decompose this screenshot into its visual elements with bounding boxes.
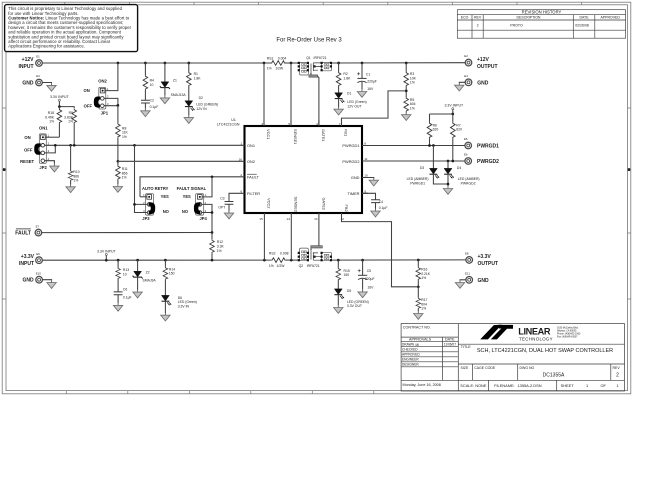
svg-text:JP1: JP1 <box>101 110 109 115</box>
svg-text:5: 5 <box>288 122 290 126</box>
svg-text:SENSE2: SENSE2 <box>294 197 299 212</box>
node junction R4 <box>144 62 147 65</box>
svg-text:INPUT: INPUT <box>19 261 34 267</box>
svg-text:PWRGD1: PWRGD1 <box>410 181 425 185</box>
capacitor C5 220uF <box>358 260 375 298</box>
svg-text:4: 4 <box>316 122 318 126</box>
svg-text:MI: MI <box>416 343 420 347</box>
svg-text:PWRGD1: PWRGD1 <box>342 143 359 148</box>
node junction Z2 <box>136 259 139 262</box>
svg-text:E2: E2 <box>464 54 468 58</box>
LED D2 green 12V IN <box>184 87 218 124</box>
svg-text:REV: REV <box>474 16 482 20</box>
node junction D4 top <box>447 160 450 163</box>
SHEET-FRAME zone ticks left <box>2 108 6 299</box>
node junction R16 <box>417 259 420 262</box>
svg-text:RS1: RS1 <box>267 56 274 60</box>
svg-text:GND: GND <box>351 175 360 180</box>
wire GATE2 to Q2 <box>318 219 320 246</box>
svg-text:11/06/07: 11/06/07 <box>444 343 456 347</box>
node 3.3V INPUT tap bottom <box>97 249 117 260</box>
svg-text:0.004: 0.004 <box>278 56 287 60</box>
svg-text:OPT: OPT <box>218 205 225 209</box>
TITLE-BLOCK left column texts <box>402 326 456 388</box>
node junction divider top <box>58 105 61 108</box>
svg-text:TECHNOLOGY: TECHNOLOGY <box>519 336 553 341</box>
TITLE-BLOCK logo Linear Technology <box>480 325 581 342</box>
svg-text:JP3: JP3 <box>142 216 150 221</box>
svg-text:1/2W: 1/2W <box>275 67 284 71</box>
svg-text:GND: GND <box>22 81 34 87</box>
svg-text:E7: E7 <box>36 224 40 228</box>
svg-text:11: 11 <box>364 157 367 161</box>
wire +12V rail E1 to RS1 <box>42 62 270 64</box>
terminal E7 FAULT <box>15 224 41 236</box>
svg-text:1%: 1% <box>73 179 78 183</box>
svg-text:3.3V INPUT: 3.3V INPUT <box>444 104 464 108</box>
svg-text:12V IN: 12V IN <box>196 107 207 111</box>
resistor R7 <box>451 114 463 161</box>
svg-text:C3: C3 <box>220 197 224 201</box>
svg-text:0.008: 0.008 <box>280 252 289 256</box>
svg-text:1/2W: 1/2W <box>277 264 286 268</box>
terminal E4 GND <box>455 74 489 91</box>
svg-text:GND: GND <box>478 278 490 284</box>
wire PWRGD2 net to E6 <box>368 160 465 162</box>
svg-text:IRF6721: IRF6721 <box>314 56 327 60</box>
node junction R6 bottom <box>428 144 431 147</box>
svg-text:OFF: OFF <box>84 103 93 108</box>
resistor R15 <box>336 260 350 289</box>
svg-text:D2: D2 <box>199 96 203 100</box>
svg-text:E4: E4 <box>464 74 468 78</box>
svg-text:CAGE CODE: CAGE CODE <box>474 366 496 370</box>
capacitor C2 <box>141 90 159 117</box>
svg-text:E1: E1 <box>36 55 40 59</box>
terminal E10 GND <box>22 271 56 288</box>
svg-text:PROTO: PROTO <box>510 24 523 28</box>
svg-text:SIZE: SIZE <box>461 366 469 370</box>
svg-text:Milpitas, CA 95035: Milpitas, CA 95035 <box>557 330 577 333</box>
resistor R12 <box>210 233 225 261</box>
wire ON1 net to pin1 <box>55 144 238 146</box>
svg-text:CHECKED: CHECKED <box>402 348 418 352</box>
svg-text:C2: C2 <box>150 98 154 102</box>
terminal E1 +12V INPUT <box>19 55 43 70</box>
wire RS1 to Q1 <box>286 62 300 64</box>
svg-text:GATE2: GATE2 <box>321 198 326 210</box>
terminal E8 +3.3V OUTPUT <box>465 252 498 268</box>
svg-text:C6: C6 <box>123 288 127 292</box>
svg-text:GATE1: GATE1 <box>321 129 326 141</box>
resistor R6 <box>427 122 438 146</box>
svg-text:1%: 1% <box>421 307 426 311</box>
TITLE-BLOCK size cage dwg rev <box>461 366 621 379</box>
node junction R10 top <box>69 144 72 147</box>
svg-text:SMAJ3A: SMAJ3A <box>143 279 157 283</box>
svg-text:+12V: +12V <box>22 57 34 63</box>
svg-text:620: 620 <box>433 128 439 132</box>
terminal E6 PWRGD2 <box>464 153 499 165</box>
wire FAULT net <box>140 177 239 197</box>
svg-text:ON: ON <box>24 135 30 140</box>
SHEET-FRAME inner border <box>6 5 628 391</box>
svg-text:E10: E10 <box>36 271 42 275</box>
node junction C5 <box>361 259 364 262</box>
svg-text:APPROVALS: APPROVALS <box>409 338 432 342</box>
svg-text:E8: E8 <box>465 252 469 256</box>
LED D1 green 12V OUT <box>334 87 367 116</box>
DISCLAIMER proprietary notice box <box>5 5 138 52</box>
svg-text:GND: GND <box>477 80 489 86</box>
jumper JP3 AUTO RETRY <box>135 145 170 221</box>
svg-text:C5: C5 <box>367 269 371 273</box>
node 3.3V INPUT tap right <box>430 104 464 122</box>
svg-text:D5: D5 <box>347 289 351 293</box>
LED D5 green 3.3V OUT <box>334 289 369 314</box>
wire Q2 to E8 <box>332 259 466 261</box>
svg-text:Z2: Z2 <box>146 271 150 275</box>
jumper JP4 FAULT SIGNAL <box>177 177 212 233</box>
svg-text:SMAJ13A: SMAJ13A <box>171 93 187 97</box>
svg-text:JP2: JP2 <box>39 165 47 170</box>
svg-text:3.3V OUT: 3.3V OUT <box>347 304 362 308</box>
svg-text:3.3V INPUT: 3.3V INPUT <box>50 95 70 99</box>
svg-text:13: 13 <box>314 217 318 221</box>
svg-text:02/26/08: 02/26/08 <box>575 24 589 28</box>
node 3.3V INPUT tap left <box>50 95 74 108</box>
svg-text:APPROVED: APPROVED <box>600 16 620 20</box>
resistor R2 <box>336 63 351 87</box>
svg-text:2: 2 <box>240 173 242 177</box>
resistor R5 <box>402 97 416 121</box>
svg-text:ENGINEER: ENGINEER <box>402 358 419 362</box>
svg-text:REV: REV <box>613 366 621 370</box>
svg-text:10: 10 <box>123 272 127 276</box>
resistor R3 <box>404 63 417 97</box>
svg-text:+3.3V: +3.3V <box>478 254 492 260</box>
svg-text:C1: C1 <box>366 72 370 76</box>
capacitor C6 <box>113 288 131 312</box>
svg-text:DATE: DATE <box>445 338 455 342</box>
node junction R15 <box>337 259 340 262</box>
svg-text:220µF: 220µF <box>367 79 377 83</box>
svg-text:DESIGNER: DESIGNER <box>402 363 419 367</box>
svg-text:FAULT: FAULT <box>15 231 31 237</box>
capacitor C3 OPT <box>218 197 234 219</box>
node junction R3-R5-FB1 <box>405 90 408 93</box>
svg-text:E11: E11 <box>465 272 470 276</box>
svg-text:1: 1 <box>617 383 619 388</box>
SHEET-FRAME zone ticks right <box>628 108 631 299</box>
node junction JP1 feed <box>117 62 120 65</box>
TITLE-BLOCK outline <box>401 324 624 391</box>
svg-text:0.1µF: 0.1µF <box>379 206 388 210</box>
node junction R7 top <box>451 113 454 116</box>
SHEET-FRAME outer border <box>2 2 631 394</box>
svg-text:Q2: Q2 <box>299 264 304 268</box>
resistor R10 <box>66 145 80 192</box>
svg-text:6: 6 <box>240 190 242 194</box>
svg-text:7: 7 <box>339 122 341 126</box>
svg-text:1%: 1% <box>269 264 274 268</box>
node junction R16-R17-FB2 <box>417 285 420 288</box>
svg-text:8: 8 <box>364 142 366 146</box>
svg-text:OF: OF <box>601 383 607 388</box>
wire +3.3V rail E9 to RS2 <box>42 259 271 261</box>
node junction R7 bottom <box>451 160 454 163</box>
node junction R12 top <box>211 231 214 234</box>
svg-text:1355A-2.DSN: 1355A-2.DSN <box>518 383 542 388</box>
svg-text:FB1: FB1 <box>344 129 349 136</box>
svg-text:+12V: +12V <box>477 57 489 63</box>
node junction D3 top <box>432 144 435 147</box>
svg-text:220µF: 220µF <box>365 277 375 281</box>
svg-text:YES: YES <box>161 194 169 199</box>
svg-text:1: 1 <box>240 142 242 146</box>
svg-text:Z1: Z1 <box>173 78 177 82</box>
node junction tap bottom <box>105 259 108 262</box>
wire RS2 to Q2 <box>286 259 299 261</box>
resistor R16 <box>416 260 431 287</box>
svg-text:15: 15 <box>259 217 263 221</box>
resistor RS1 sense <box>267 56 287 70</box>
svg-text:ON1: ON1 <box>247 143 255 148</box>
terminal E9 +3.3V INPUT <box>19 252 42 267</box>
capacitor C1 220uF <box>357 63 377 97</box>
svg-text:DC1355A: DC1355A <box>543 372 565 378</box>
svg-text:1%: 1% <box>267 67 272 71</box>
svg-text:Phone: (408)432-1900: Phone: (408)432-1900 <box>557 334 581 336</box>
svg-text:1%: 1% <box>410 106 415 110</box>
svg-text:REVISION HISTORY: REVISION HISTORY <box>522 10 562 15</box>
LED D4 amber PWRGD2 <box>443 161 479 194</box>
svg-text:C4: C4 <box>379 200 383 204</box>
transistor Q1 IRF6721 DirectFET <box>298 56 332 126</box>
resistor R11 <box>113 161 128 192</box>
node junction R14 <box>164 259 167 262</box>
svg-text:NO: NO <box>182 209 189 214</box>
svg-text:Fax: (408)434-0507: Fax: (408)434-0507 <box>557 337 578 339</box>
jumper JP1 ON2 <box>84 63 118 115</box>
svg-text:RS2: RS2 <box>269 252 276 256</box>
svg-text:3: 3 <box>261 122 263 126</box>
svg-text:16V: 16V <box>367 285 374 289</box>
svg-text:1.8K: 1.8K <box>194 76 202 80</box>
resistor R17 <box>414 287 428 320</box>
svg-text:16V: 16V <box>367 87 374 91</box>
node junction SENSE1 <box>290 62 293 65</box>
resistor R13 <box>116 260 129 292</box>
wire FB2 jog to divider <box>342 219 419 287</box>
node junction LED gnd tie <box>447 183 450 186</box>
node junction FAULT-JP4 <box>211 175 214 178</box>
svg-text:For Re-Order Use Rev 3: For Re-Order Use Rev 3 <box>276 37 342 43</box>
svg-text:LINEAR: LINEAR <box>518 327 551 337</box>
node junction JP4 pin3 <box>211 211 214 214</box>
svg-text:FAULT SIGNAL: FAULT SIGNAL <box>177 186 207 191</box>
svg-text:ON1: ON1 <box>39 126 48 131</box>
svg-text:PWRGD2: PWRGD2 <box>477 159 499 165</box>
node junction R1 <box>187 62 190 65</box>
svg-text:3.3V IN: 3.3V IN <box>178 304 190 308</box>
node junction JP1 pins2-3 <box>117 104 120 107</box>
resistor R18 <box>45 107 62 138</box>
svg-text:CONTRACT NO.: CONTRACT NO. <box>403 326 431 330</box>
node junction C1 <box>361 62 364 65</box>
svg-text:ON2: ON2 <box>98 79 107 84</box>
svg-text:PWRGD2: PWRGD2 <box>342 159 359 164</box>
svg-text:E6: E6 <box>464 153 468 157</box>
node junction JP3 pin2 <box>133 203 136 206</box>
svg-text:0.1µF: 0.1µF <box>150 105 159 109</box>
svg-text:14: 14 <box>286 217 290 221</box>
node junction ON2 net <box>117 160 120 163</box>
node junction R13 <box>117 259 120 262</box>
resistor RS2 sense <box>269 252 289 268</box>
svg-text:2: 2 <box>616 373 619 379</box>
svg-text:D3: D3 <box>420 166 424 170</box>
svg-text:E3: E3 <box>36 74 40 78</box>
wire SENSE2 to rail <box>290 219 292 260</box>
svg-text:ECO: ECO <box>461 16 469 20</box>
svg-text:1.8K: 1.8K <box>343 76 351 80</box>
svg-text:FILENAME:: FILENAME: <box>494 383 515 388</box>
wire Q1 to E2 <box>332 62 465 64</box>
node junction VCC1 <box>263 62 266 65</box>
svg-text:E5: E5 <box>464 137 468 141</box>
svg-text:SCH, LTC4221CGN, DUAL HOT SWAP: SCH, LTC4221CGN, DUAL HOT SWAP CONTROLLE… <box>477 348 613 354</box>
terminal E5 PWRGD1 <box>464 137 499 149</box>
svg-text:0.1µF: 0.1µF <box>123 296 132 300</box>
zener Z1 SMAJ13A <box>160 63 187 104</box>
capacitor C4 <box>371 200 388 217</box>
svg-text:ON2: ON2 <box>247 159 255 164</box>
svg-text:1630 McCarthy Blvd.: 1630 McCarthy Blvd. <box>557 327 579 330</box>
svg-text:D1: D1 <box>347 91 351 95</box>
svg-text:D4: D4 <box>457 166 461 170</box>
node junction JP3 branch <box>133 144 136 147</box>
svg-text:1%: 1% <box>122 135 127 139</box>
svg-text:16: 16 <box>239 158 243 162</box>
svg-text:U1: U1 <box>231 118 236 122</box>
svg-text:3.3V INPUT: 3.3V INPUT <box>97 249 117 253</box>
wire VCC1 <box>263 63 265 126</box>
terminal E11 GND <box>455 272 489 289</box>
svg-text:E9: E9 <box>36 252 40 256</box>
node junction R9 bottom <box>73 144 76 147</box>
SHEET-FRAME zone ticks bottom <box>66 391 374 394</box>
svg-text:ON: ON <box>84 88 90 93</box>
terminal E2 +12V OUTPUT <box>464 54 497 70</box>
svg-text:2: 2 <box>477 24 479 28</box>
terminal E3 GND <box>22 74 56 91</box>
svg-text:150: 150 <box>344 273 350 277</box>
svg-text:1: 1 <box>586 383 588 388</box>
svg-text:VCC2: VCC2 <box>267 198 272 208</box>
resistor R9 <box>64 109 76 146</box>
svg-text:1%: 1% <box>68 120 73 124</box>
svg-text:OFF: OFF <box>24 147 33 152</box>
wire SENSE1 <box>290 63 292 126</box>
resistor R14 <box>163 260 175 295</box>
svg-text:OUTPUT: OUTPUT <box>478 261 499 267</box>
node junction SENSE2 <box>290 259 293 262</box>
wire GND pin10 <box>362 178 378 187</box>
node junction R3 <box>405 62 408 65</box>
resistor R8 <box>116 106 129 162</box>
svg-text:SHEET: SHEET <box>561 383 575 388</box>
svg-text:YES: YES <box>183 194 191 199</box>
svg-text:FB2: FB2 <box>344 205 349 212</box>
wire VCC2 to rail <box>263 219 265 260</box>
LED D3 amber PWRGD1 <box>407 146 448 186</box>
svg-text:VCC1: VCC1 <box>266 129 271 139</box>
svg-text:1%: 1% <box>421 276 426 280</box>
node junction VCC2 <box>263 259 266 262</box>
svg-text:AUTO RETRY: AUTO RETRY <box>142 186 169 191</box>
svg-text:INPUT: INPUT <box>19 64 34 70</box>
svg-text:DRAWN: DRAWN <box>402 343 415 347</box>
transistor Q2 IRF6721 DirectFET <box>298 246 332 269</box>
svg-text:GND: GND <box>22 278 34 284</box>
svg-text:10: 10 <box>150 83 154 87</box>
svg-text:Q1: Q1 <box>306 56 311 60</box>
svg-text:JP4: JP4 <box>200 216 208 221</box>
svg-text:12V OUT: 12V OUT <box>347 104 361 108</box>
svg-text:OUTPUT: OUTPUT <box>477 64 498 70</box>
svg-text:NO: NO <box>163 209 170 214</box>
svg-text:1%: 1% <box>122 176 127 180</box>
svg-text:SENSE1: SENSE1 <box>293 129 298 144</box>
resistor R1 <box>187 63 202 87</box>
wire PWRGD1 net to E5 <box>368 145 465 147</box>
op-amp U1 LTC4221CGN box <box>217 118 368 221</box>
node junction R12 bottom <box>211 259 214 262</box>
svg-text:TIMER: TIMER <box>347 191 359 196</box>
svg-text:1%: 1% <box>49 120 54 124</box>
wire FAULT E7 net <box>42 232 212 234</box>
svg-text:DWG NO: DWG NO <box>520 366 535 370</box>
svg-text:TITLE: TITLE <box>461 345 472 349</box>
TITLE-BLOCK scale filename sheet <box>460 383 618 388</box>
wire FILTER net <box>229 193 239 201</box>
svg-text:Monday, June 16, 2008: Monday, June 16, 2008 <box>403 383 441 387</box>
resistor R4 <box>143 63 154 90</box>
svg-text:FILTER: FILTER <box>247 191 260 196</box>
svg-text:PWRGD1: PWRGD1 <box>477 144 499 150</box>
svg-text:PWRGD2: PWRGD2 <box>461 181 476 185</box>
svg-text:APPROVED: APPROVED <box>402 353 420 357</box>
wire TIMER pin9 <box>362 193 376 200</box>
svg-text:1%: 1% <box>217 249 222 253</box>
wire FB1 jog to divider <box>342 91 407 126</box>
svg-text:Applications Engineering for a: Applications Engineering for assistance. <box>8 44 85 49</box>
REV-TABLE revision history table <box>457 10 625 39</box>
svg-text:DESCRIPTION: DESCRIPTION <box>517 16 541 20</box>
LED D6 green 3.3V IN <box>161 295 197 321</box>
node junction R2 <box>337 62 340 65</box>
svg-text:LTC4221CGN: LTC4221CGN <box>217 122 240 126</box>
zener Z2 SMAJ3A <box>133 260 157 298</box>
wire ON2 net to pin16 <box>118 160 239 162</box>
svg-text:620: 620 <box>456 128 462 132</box>
svg-text:1%: 1% <box>410 81 415 85</box>
svg-text:DATE: DATE <box>579 16 589 20</box>
svg-text:FAULT: FAULT <box>247 174 259 179</box>
node junction Z1 <box>164 62 167 65</box>
svg-text:150: 150 <box>169 272 175 276</box>
